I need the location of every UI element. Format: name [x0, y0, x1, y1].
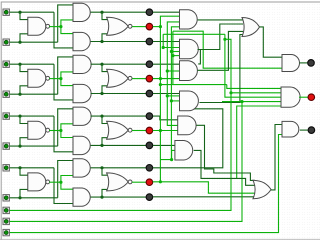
wire net G1 to AND5 in1 [153, 11, 180, 13]
wire pin9 jog west [163, 33, 225, 35]
wire bridge under AND7 [160, 84, 226, 86]
wire AND4a out [91, 167, 147, 169]
node bus v3 j2 [166, 94, 169, 97]
node bus v1 j2 [159, 77, 162, 80]
wire bus v2 [163, 34, 179, 47]
wire to NOR4 in2 [102, 189, 109, 197]
node AND3a junction [100, 115, 103, 118]
node AND4a junction [100, 166, 103, 169]
and gate AND12 (5-in) [281, 87, 300, 107]
wire NAND4 out [49, 181, 61, 183]
nand gate U2 [28, 69, 46, 87]
led L1a (off) [146, 9, 153, 16]
input pin B1 [3, 39, 9, 45]
and gate AND11 [282, 55, 300, 72]
and gate AND1b [73, 32, 90, 50]
wire B2 to NAND2 [20, 86, 28, 94]
wire AND3b out [91, 144, 147, 146]
wire A3 to AND3b [54, 116, 73, 152]
wire to NOR1 in2 [102, 34, 109, 42]
led L2a (off) [146, 61, 153, 68]
nor gate NOR2 [107, 69, 129, 87]
input pin A3 [3, 113, 9, 119]
wire net E1 from led [153, 26, 161, 28]
led L2m (on) [146, 75, 153, 82]
wire A1 to AND1b [54, 12, 73, 48]
input pin EN1 [3, 207, 9, 213]
wire NOR1 out [132, 26, 146, 28]
wire NOR2 out [132, 78, 146, 80]
wire B2 to AND2a [58, 57, 73, 94]
wire B1 to AND1a [58, 5, 73, 42]
and gate AND2a [73, 55, 91, 73]
wire NAND3 to AND3b [61, 131, 73, 138]
input pin A2 [3, 61, 9, 67]
node B1 junction [18, 41, 21, 44]
node bus v1 j3 [159, 129, 162, 132]
input pin B4 [3, 195, 9, 201]
wire NAND4 to AND4a [61, 176, 73, 183]
wire stub AND6 out [198, 50, 201, 64]
node bus v4 j2 [170, 99, 173, 102]
wire B3 to NAND3 [20, 138, 28, 146]
and gate AND9 [178, 116, 196, 135]
wire AND13 out [300, 129, 308, 131]
wire NAND2 to AND2a [61, 72, 73, 79]
wire net L4 to OR2 in4 [153, 196, 255, 198]
led L3m (on) [146, 127, 153, 134]
wire pin10 net [10, 102, 243, 222]
wire bus v5 [172, 31, 174, 84]
wire bus v4 to AND8 in3 [171, 100, 179, 102]
node bus v4 j1 [170, 50, 173, 53]
node AND2a junction [100, 63, 103, 66]
wire net L2 to AND8 in1 [153, 93, 180, 95]
node bus v3 j1 [166, 69, 169, 72]
wire B2 net [10, 93, 58, 95]
wire AND1a out [91, 11, 147, 13]
wire A4 to NAND4 [20, 168, 28, 175]
wire OR1 out to AND11 in1 [260, 27, 283, 57]
node bus v5 j1 [171, 54, 174, 57]
wire bus v4 to AND6 in3 [171, 51, 179, 53]
and gate AND3b [73, 136, 90, 154]
wire AND1b out [91, 41, 147, 43]
wire pin11 net to AND13 in2 [10, 135, 283, 233]
and gate AND4b [73, 188, 90, 206]
led OUT2 (on) [308, 94, 315, 101]
wire OR2 out to AND13 in1 [271, 125, 282, 190]
wire B4 to NAND4 [20, 189, 28, 197]
wire net E3 to AND9 in3 [153, 130, 178, 132]
wire A1 to NAND1 [20, 12, 28, 19]
wire to NOR4 in1 [102, 168, 109, 175]
wire net L3 to AND10 in1 [153, 144, 175, 146]
nor gate NOR1 [107, 17, 129, 35]
input pin B3 [3, 143, 9, 149]
node B2 junction [18, 93, 21, 96]
nor gate NOR3 [107, 121, 129, 139]
wire to AND12 in1 [227, 85, 281, 89]
wire AND12 out [299, 96, 308, 98]
wire net G3 jog to AND9 in1 [153, 116, 178, 120]
node NAND3 out junction [59, 129, 62, 132]
wire NAND3 to AND3a [61, 124, 73, 131]
wire bus v3 [167, 22, 179, 126]
input pin B2 [3, 91, 9, 97]
led L2b (off) [146, 90, 153, 97]
nand gate U4 [28, 173, 46, 191]
node bus v2 j [162, 46, 165, 49]
wire A4 net [10, 167, 55, 169]
and gate AND2b [73, 84, 91, 102]
and gate AND8 (4-in) [180, 91, 199, 111]
node A3 junction [18, 115, 21, 118]
wire bus v3 to AND8 in2 [167, 95, 179, 97]
node NAND4 out junction [59, 181, 62, 184]
node B3 junction [18, 145, 21, 148]
and gate AND13 [282, 121, 299, 137]
led L4a (off) [146, 165, 153, 172]
wire NAND3 out [49, 130, 61, 132]
wire to NOR1 in1 [102, 12, 109, 19]
wire AND7 out to OR1 in3 [198, 31, 243, 70]
node AND4b junction [100, 196, 103, 199]
input pin EN3 [3, 229, 9, 235]
wire A2 to NAND2 [20, 64, 28, 71]
wire pin9 net [10, 39, 232, 210]
node NAND1 out junction [59, 25, 62, 28]
wire NAND1 to AND1b [61, 27, 73, 34]
wire B4 to AND4a [58, 161, 73, 198]
wire net E4 to OR2 in3 [153, 182, 255, 193]
wire bus r3 to AND12 in5 [237, 106, 281, 178]
wire net L1 to AND6 in1 [153, 41, 180, 43]
led L1b (off) [146, 38, 153, 45]
node AND3b junction [100, 144, 103, 147]
wire AND8 out to OR1 in4 [199, 35, 243, 103]
wire B3 net [10, 145, 58, 147]
wire NOR4 out [132, 181, 146, 183]
and gate AND6 (4-in) [180, 39, 199, 59]
wire bus v4 [171, 27, 179, 159]
input pin EN2 [3, 218, 9, 224]
wire bus v1 to AND10 [160, 150, 175, 159]
node NAND2 out junction [59, 77, 62, 80]
or gate OR2 (4-in) [253, 180, 271, 198]
and gate AND4a [73, 159, 90, 177]
led OUT3 (off) [308, 127, 315, 134]
wire AND6 out to OR1 in2 [198, 24, 243, 50]
wire to NOR2 in2 [102, 86, 109, 94]
led L4b (off) [146, 194, 153, 201]
wire net G4 to AND8 in4 [153, 109, 223, 168]
wire NOR3 out [132, 130, 146, 132]
wire NAND1 to AND1a [61, 20, 73, 27]
wire NAND2 to AND2b [61, 79, 73, 86]
led L3b (off) [146, 142, 153, 149]
wire B1 net [10, 41, 58, 43]
wire NAND4 to AND4b [61, 182, 73, 189]
node bus r1 j [223, 38, 226, 41]
input pin A1 [3, 9, 9, 15]
wire to NOR3 in1 [102, 116, 109, 123]
nand gate U3 [28, 121, 46, 139]
led L1m (on) [146, 23, 153, 30]
and gate AND10 [175, 141, 193, 161]
led OUT1 (off) [308, 60, 315, 67]
node B4 junction [18, 196, 21, 199]
wire net E2 to AND7 in3 [153, 78, 180, 80]
node bus v1 j1 [159, 25, 162, 28]
wire AND3a out [91, 115, 147, 117]
wire AND5 out to OR1 in1 [198, 19, 243, 21]
wire to NOR2 in1 [102, 64, 109, 71]
wire A3 to NAND3 [20, 116, 28, 123]
wire NAND1 out [49, 26, 61, 28]
or gate OR1 (4-in) [242, 18, 260, 37]
led L3a (off) [146, 113, 153, 120]
node bus v1 j4 [170, 158, 173, 161]
wire bridge E to AND11 in2 [173, 31, 282, 68]
wire AND11 out [299, 62, 307, 64]
wire AND2a out [91, 63, 147, 65]
wire bus r1 to AND12 in3 [225, 34, 281, 97]
node AND1a junction [100, 11, 103, 14]
node pin10 junction [240, 100, 243, 103]
node AND1b junction [100, 40, 103, 43]
wire AND10 out to OR2 in2 [194, 150, 255, 185]
wire bus v5 bridge [173, 55, 180, 57]
wire A2 to AND2b [54, 64, 73, 100]
node bridge j [159, 83, 162, 86]
wire A1 net [10, 11, 55, 13]
wire AND4b out [91, 196, 147, 198]
led L4m (on) [146, 179, 153, 186]
nor gate NOR4 [107, 173, 129, 191]
node pin9 j1 [229, 91, 232, 94]
wire B1 to NAND1 [20, 34, 28, 42]
wire B4 net [10, 197, 58, 199]
wire bus v1 [160, 16, 179, 181]
wire A2 net [10, 63, 55, 65]
input pin A4 [3, 165, 9, 171]
wire pin9 to AND12 in2 [231, 92, 281, 94]
node A4 junction [18, 166, 21, 169]
and gate AND3a [73, 107, 91, 125]
and gate AND7 [180, 61, 198, 81]
wire net G2 to AND7 in1 [153, 63, 180, 65]
wire B3 to AND3a [58, 109, 73, 146]
node E4 junction [159, 180, 162, 183]
node A2 junction [18, 63, 21, 66]
wire to NOR3 in2 [102, 138, 109, 146]
nand gate U1 [28, 17, 46, 35]
wire A4 to AND4b [54, 168, 73, 204]
wire AND9 out to OR2 in1 [197, 125, 256, 180]
wire to AND12 in4 [222, 101, 281, 103]
wire bus v3 to AND7 in2 [167, 70, 179, 72]
wire A3 net [10, 115, 55, 117]
and gate AND1a [73, 3, 90, 21]
wire NAND2 out [49, 78, 61, 80]
wire AND2b out [91, 93, 147, 95]
node A1 junction [18, 11, 21, 14]
node AND2b junction [100, 92, 103, 95]
and gate AND5 (4-in) [180, 10, 198, 29]
